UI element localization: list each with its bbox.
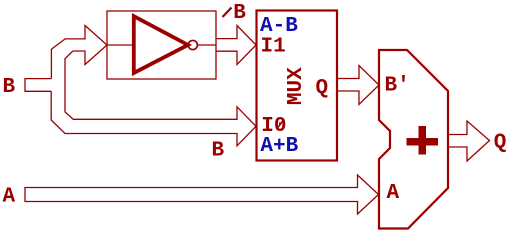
plus symbol horizontal bar [407, 138, 439, 146]
svg-text:Q: Q [316, 77, 329, 100]
mux box U2 [257, 11, 338, 161]
svg-text:MUX: MUX [285, 67, 308, 105]
svg-text:B': B' [385, 74, 410, 97]
svg-text:A: A [3, 186, 16, 209]
svg-text:A: A [387, 182, 400, 205]
svg-text:Q: Q [494, 131, 507, 154]
wire adder Q output bus with arrowhead [448, 121, 490, 161]
inverter U1 [134, 16, 188, 73]
wire MUX Q output bus to adder B' with arrowhead [337, 66, 379, 105]
wire gate output bus to MUX I1 with arrowhead [216, 26, 256, 65]
svg-text:A-B: A-B [260, 15, 298, 38]
wire B source stub [25, 79, 51, 92]
wire A bus to adder with arrowhead [25, 175, 379, 214]
slash of /B [223, 8, 232, 18]
wire inverter output line [197, 44, 216, 46]
svg-text:B: B [233, 2, 246, 25]
inverter bubble [188, 40, 197, 49]
svg-text:I1: I1 [261, 35, 286, 58]
svg-text:B: B [212, 140, 225, 163]
wire upper branch to inverter with arrowhead [51, 26, 107, 79]
adder U3 [379, 50, 448, 229]
plus symbol vertical bar [419, 126, 427, 155]
slash of zero in I0 [277, 119, 285, 130]
svg-text:B: B [3, 76, 16, 99]
wire inner branch divider [51, 51, 256, 146]
gate box [107, 11, 216, 79]
svg-text:A+B: A+B [260, 135, 298, 158]
wire inverter input line [107, 44, 134, 46]
